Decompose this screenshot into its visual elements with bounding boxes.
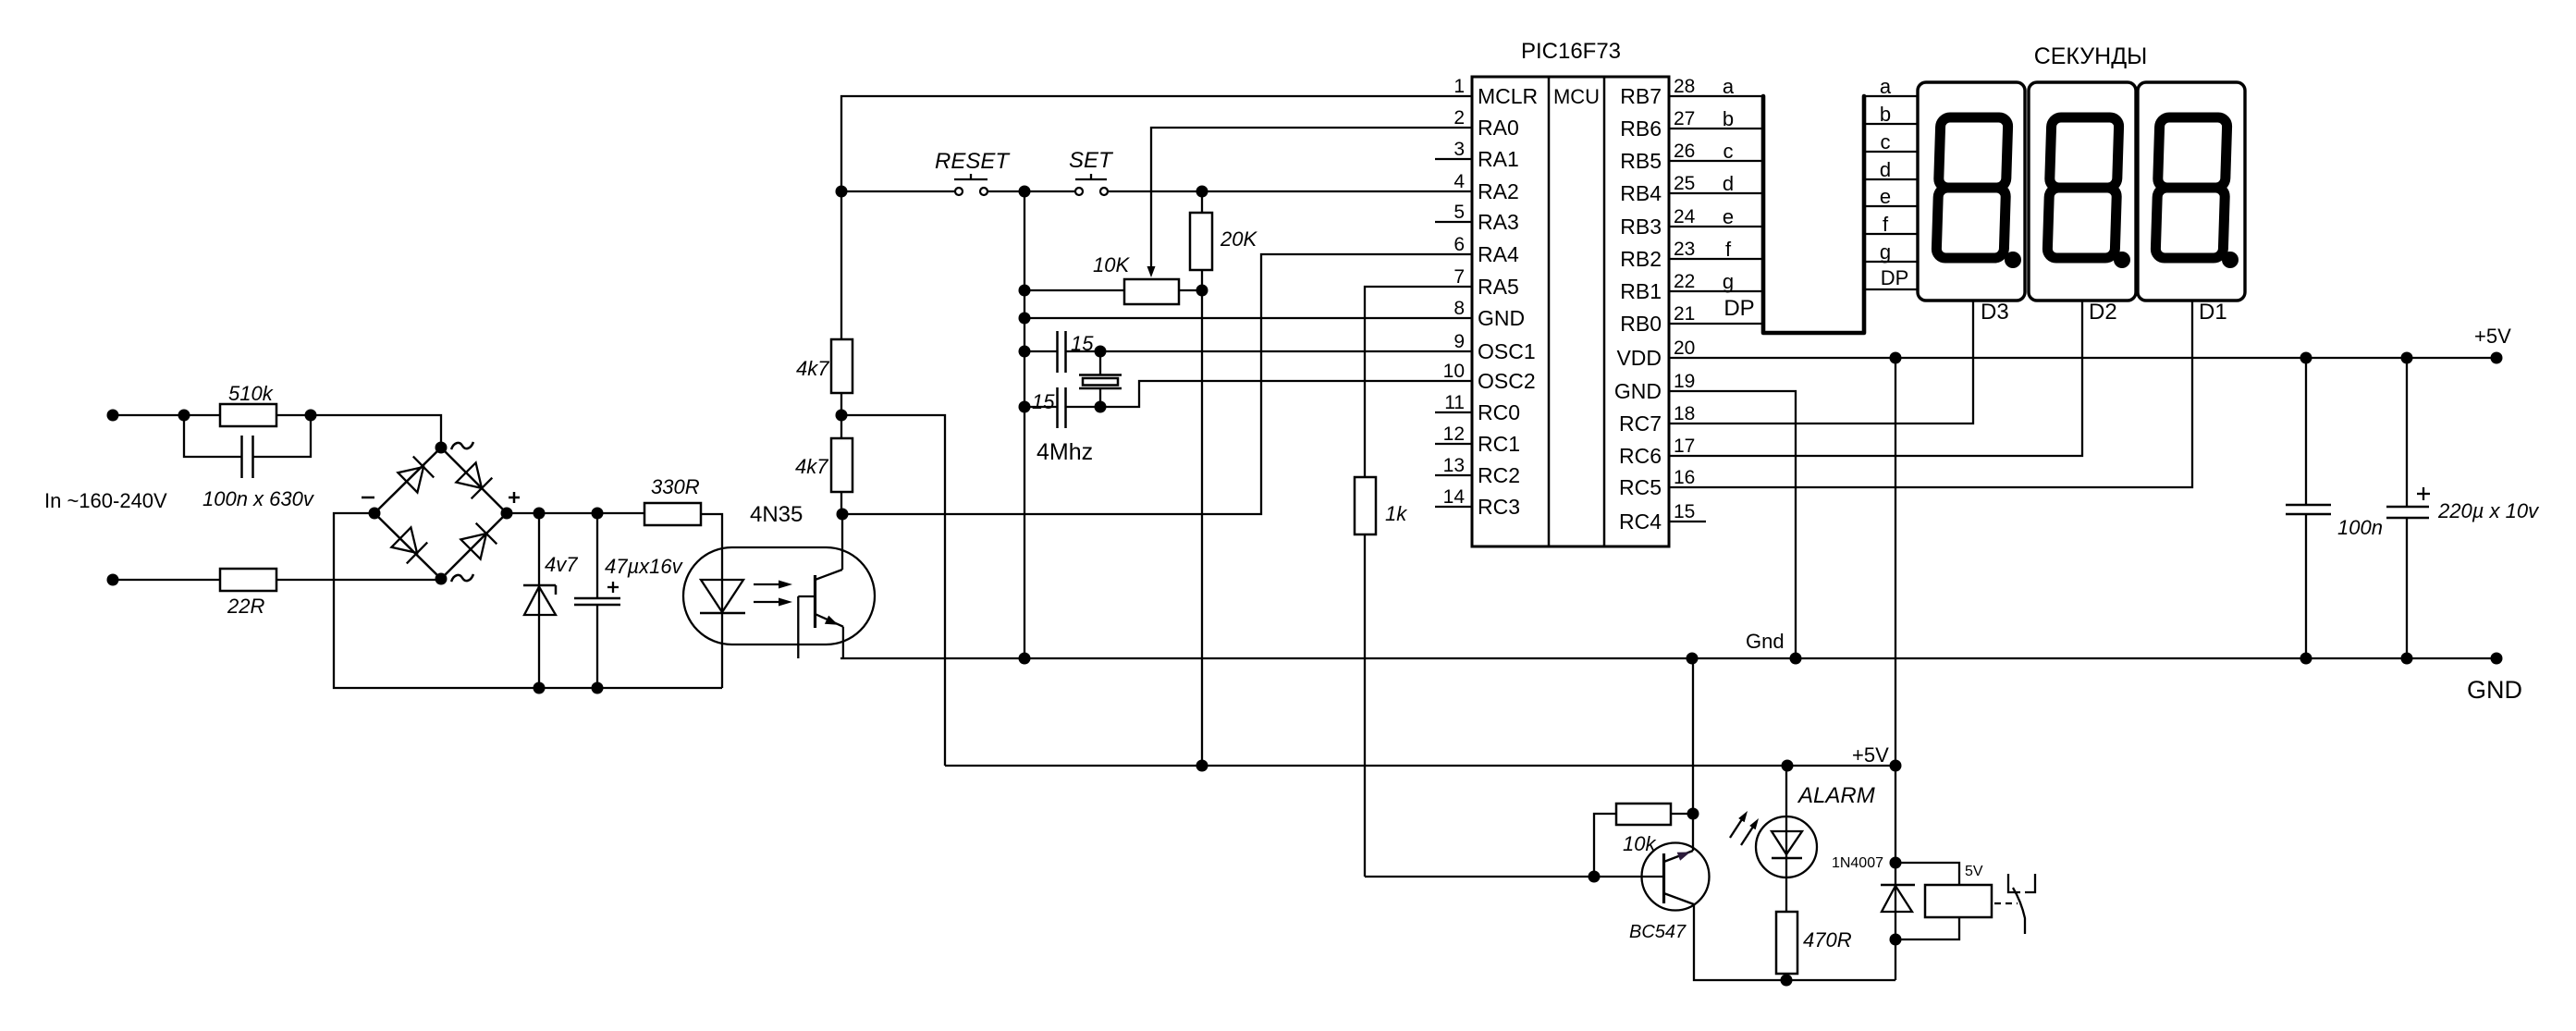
label: AC marks <box>451 442 473 449</box>
wires: bus to display segments <box>1864 96 1918 289</box>
svg-text:RB2: RB2 <box>1620 247 1662 271</box>
svg-text:+5V: +5V <box>2474 325 2511 348</box>
transistor Q BC547 <box>1642 843 1710 911</box>
pin numbers right <box>1674 76 1696 522</box>
svg-text:11: 11 <box>1444 392 1465 413</box>
LED ALARM <box>1756 766 1817 912</box>
diode bridge bottom-left <box>391 527 427 563</box>
wires: segment pins RB7-RB0 to bus <box>1669 96 1763 324</box>
svg-text:4: 4 <box>1454 171 1465 192</box>
node: AC input terminal bottom <box>107 574 119 586</box>
svg-text:DP: DP <box>1881 266 1909 289</box>
phototransistor of 4N35 <box>798 570 843 658</box>
wire: RA5 pin7 down <box>1365 287 1472 477</box>
wire: opto emitter down to gnd rail <box>842 627 844 658</box>
diode bridge bottom-right <box>460 523 497 559</box>
svg-text:g: g <box>1723 270 1734 293</box>
svg-text:4N35: 4N35 <box>750 502 803 527</box>
svg-text:+5V: +5V <box>1852 743 1889 767</box>
wire: VDD +5V rail <box>1669 357 2496 359</box>
bus: thick segment bus <box>1763 96 1864 333</box>
svg-text:17: 17 <box>1674 436 1695 457</box>
IC U1 PIC16F73 body <box>1472 77 1669 546</box>
node: bridge corners <box>435 442 448 454</box>
decimal points <box>2005 252 2021 268</box>
wire <box>840 393 842 438</box>
pushbutton RESET <box>954 174 987 195</box>
svg-text:RA0: RA0 <box>1478 116 1519 140</box>
wire: relay branch vertical <box>1895 766 1896 980</box>
wire: D2 common to RC6 pin17 <box>1669 301 2082 456</box>
resistor 10k <box>1594 804 1693 877</box>
digit eights <box>1936 117 2227 258</box>
svg-text:20: 20 <box>1674 338 1695 359</box>
diode bridge top-left <box>398 457 434 493</box>
svg-text:e: e <box>1723 205 1734 228</box>
junction <box>178 410 190 422</box>
LED inside 4N35 <box>700 580 745 613</box>
node <box>1019 285 1031 297</box>
svg-text:22: 22 <box>1674 271 1695 292</box>
svg-text:СЕКУНДЫ: СЕКУНДЫ <box>2034 43 2148 69</box>
svg-text:7: 7 <box>1454 266 1465 288</box>
wire: bottom input to 22R <box>113 579 220 581</box>
svg-text:BC547: BC547 <box>1629 922 1687 942</box>
wire: RA0 pin2 to wiper <box>1151 128 1472 266</box>
svg-text:330R: 330R <box>651 475 700 498</box>
svg-text:19: 19 <box>1674 371 1695 392</box>
node <box>1890 352 1902 364</box>
svg-text:12: 12 <box>1443 423 1465 445</box>
pushbutton SET <box>1075 174 1108 195</box>
svg-text:RB3: RB3 <box>1620 215 1662 239</box>
svg-text:18: 18 <box>1674 403 1695 424</box>
pin names left <box>1478 84 1538 519</box>
pin stub unconnected right: RC4 <box>1669 521 1706 522</box>
wire: 510k to bridge top <box>276 415 441 448</box>
svg-text:GND: GND <box>1478 306 1525 330</box>
svg-text:RB0: RB0 <box>1620 312 1662 336</box>
svg-text:f: f <box>1725 238 1732 261</box>
resistor 1k <box>1355 477 1376 534</box>
svg-text:100n x 630v: 100n x 630v <box>202 487 315 510</box>
SECTION: opto <box>683 502 875 658</box>
capacitor 15 upper <box>1024 331 1472 373</box>
svg-text:510k: 510k <box>228 382 274 405</box>
svg-text:RA2: RA2 <box>1478 179 1519 203</box>
svg-text:100n: 100n <box>2337 516 2383 539</box>
wire: bridge minus down to gnd rail <box>334 513 722 688</box>
label: minus <box>362 497 374 499</box>
svg-text:RB5: RB5 <box>1620 149 1662 173</box>
svg-text:DP: DP <box>1723 296 1754 321</box>
wire: RA2 row with buttons <box>841 190 955 192</box>
wire: bridge plus to 330R <box>507 512 644 514</box>
wire: 1k down to BC547 base <box>1364 534 1366 877</box>
SECTION: right rails <box>840 325 2540 766</box>
svg-text:RC4: RC4 <box>1619 509 1662 534</box>
diode bridge top-right <box>456 462 492 498</box>
svg-text:RC3: RC3 <box>1478 495 1520 519</box>
svg-text:20K: 20K <box>1220 227 1257 251</box>
svg-text:1: 1 <box>1454 76 1465 97</box>
svg-text:RA1: RA1 <box>1478 147 1519 171</box>
labels: segment letters left column <box>1723 75 1755 321</box>
pin numbers left <box>1443 76 1466 508</box>
SECTION: left power input <box>44 382 441 618</box>
relay K1 coil <box>1895 863 1992 939</box>
SECTION: bottom <box>1365 658 2035 987</box>
relay linkage dashed <box>1994 902 2018 904</box>
svg-text:a: a <box>1880 75 1892 98</box>
wire: GND pin19 down to gnd rail <box>1669 391 1796 658</box>
node <box>1687 808 1699 820</box>
resistor 20K <box>1190 191 1212 766</box>
svg-text:RB6: RB6 <box>1620 117 1662 141</box>
svg-text:OSC1: OSC1 <box>1478 339 1536 363</box>
wire: GND pin8 row <box>1024 317 1472 319</box>
wire: +5V bottom rail <box>945 765 1895 767</box>
wire: 22R to bridge bottom <box>276 579 441 581</box>
svg-text:OSC2: OSC2 <box>1478 369 1536 393</box>
capacitor 220µ x 10v <box>2386 358 2430 658</box>
svg-text:b: b <box>1880 103 1891 126</box>
svg-text:GND: GND <box>1614 379 1662 403</box>
svg-text:28: 28 <box>1674 76 1695 97</box>
svg-text:15: 15 <box>1032 390 1055 413</box>
svg-text:RA4: RA4 <box>1478 242 1519 266</box>
svg-text:5: 5 <box>1454 202 1465 223</box>
svg-text:RC0: RC0 <box>1478 400 1520 424</box>
svg-text:RC2: RC2 <box>1478 463 1520 487</box>
pin stubs unconnected left: RA1 RA3 RC0 RC1 RC2 RC3 <box>1435 159 1472 507</box>
svg-text:4k7: 4k7 <box>795 455 828 478</box>
svg-text:In ~160-240V: In ~160-240V <box>44 489 167 512</box>
svg-text:GND: GND <box>2467 676 2522 704</box>
svg-text:15: 15 <box>1071 332 1094 355</box>
svg-text:470R: 470R <box>1803 928 1852 951</box>
node <box>837 509 849 521</box>
resistor 4k7 upper <box>831 339 853 393</box>
svg-text:g: g <box>1880 240 1891 264</box>
svg-text:f: f <box>1883 213 1889 236</box>
svg-text:RB4: RB4 <box>1620 181 1662 205</box>
capacitor 47µx16v <box>574 513 620 688</box>
junction <box>305 410 317 422</box>
svg-text:10K: 10K <box>1093 253 1130 276</box>
svg-text:1k: 1k <box>1385 502 1407 525</box>
display digit D1 box <box>2138 82 2245 301</box>
wire: collector line from gnd rail <box>1692 658 1694 851</box>
svg-text:8: 8 <box>1454 298 1465 319</box>
svg-text:a: a <box>1723 75 1735 98</box>
svg-text:27: 27 <box>1674 108 1695 129</box>
label: plus <box>509 497 520 499</box>
node <box>1589 871 1601 883</box>
svg-text:24: 24 <box>1674 206 1696 227</box>
light arrows <box>754 581 792 607</box>
zener 4v7 <box>523 513 556 688</box>
svg-text:Gnd: Gnd <box>1746 630 1785 653</box>
svg-text:MCLR: MCLR <box>1478 84 1538 108</box>
capacitor 15 lower <box>1024 387 1100 428</box>
svg-text:13: 13 <box>1443 455 1465 476</box>
pin names right <box>1614 84 1662 534</box>
wire: OSC2 to crystal <box>1100 381 1472 407</box>
svg-text:4v7: 4v7 <box>545 553 578 576</box>
node <box>1019 653 1031 665</box>
resistor 330R <box>644 503 701 525</box>
svg-text:D2: D2 <box>2089 300 2117 325</box>
svg-text:MCU: MCU <box>1553 85 1600 108</box>
svg-text:4Mhz: 4Mhz <box>1037 439 1093 465</box>
display digit D3 box <box>1918 82 2025 301</box>
svg-text:RC7: RC7 <box>1619 411 1662 436</box>
svg-text:16: 16 <box>1674 467 1695 488</box>
svg-text:c: c <box>1723 140 1734 163</box>
node <box>1019 313 1031 325</box>
svg-text:D3: D3 <box>1981 300 2009 325</box>
svg-text:15: 15 <box>1674 501 1695 522</box>
svg-text:RC1: RC1 <box>1478 432 1520 456</box>
svg-text:RA5: RA5 <box>1478 275 1519 299</box>
node: AC input terminal top <box>107 410 119 422</box>
node <box>1019 401 1031 413</box>
svg-text:c: c <box>1881 130 1891 153</box>
resistor 22R <box>220 569 276 591</box>
svg-text:RC5: RC5 <box>1619 475 1662 499</box>
svg-text:23: 23 <box>1674 239 1695 260</box>
wire: RA4 pin6 to opto collector <box>842 254 1472 514</box>
wire: base wire to BC547 <box>1365 876 1663 878</box>
wire <box>840 491 842 514</box>
node <box>836 186 848 198</box>
svg-text:d: d <box>1723 172 1734 195</box>
svg-text:ALARM: ALARM <box>1797 783 1875 808</box>
node <box>1890 857 1902 869</box>
SECTION: bridge <box>334 442 722 694</box>
svg-text:b: b <box>1723 107 1734 130</box>
wire: gnd vertical x1108 <box>1024 191 1025 658</box>
node <box>1781 975 1793 987</box>
SECTION: middle <box>795 96 1895 877</box>
capacitor 100n x 630v <box>184 415 241 457</box>
svg-text:220µ x 10v: 220µ x 10v <box>2437 499 2540 522</box>
switch contacts <box>2008 874 2035 934</box>
svg-text:e: e <box>1880 185 1891 208</box>
capacitor 100n right <box>2286 358 2331 658</box>
svg-text:1N4007: 1N4007 <box>1832 855 1883 871</box>
diode 1N4007 <box>1881 885 1915 912</box>
potentiometer 10K <box>1024 279 1202 304</box>
svg-text:3: 3 <box>1454 139 1465 160</box>
svg-text:D1: D1 <box>2199 300 2227 325</box>
resistor 510k <box>220 404 276 426</box>
svg-text:9: 9 <box>1454 331 1465 352</box>
wire: D1 common to RC5 pin16 <box>1669 301 2192 487</box>
wire: 330R to opto LED <box>701 514 722 688</box>
optocoupler U 4N35 body <box>683 547 875 644</box>
SECTION: mcu <box>1435 39 1706 546</box>
node: +5V junction of 4k7s <box>836 410 848 422</box>
resistor 470R <box>1776 912 1797 974</box>
display digit D2 box <box>2029 82 2136 301</box>
SECTION: display <box>1669 43 2245 487</box>
svg-text:14: 14 <box>1443 486 1466 508</box>
node <box>534 508 546 520</box>
wire: MCLR line pin1 <box>841 96 1472 339</box>
svg-text:RESET: RESET <box>935 149 1011 174</box>
wire: opto collector up to 4k7 junction <box>841 514 843 570</box>
wire: main gnd rail <box>840 657 2496 659</box>
svg-text:RB1: RB1 <box>1620 279 1662 303</box>
node <box>1019 346 1031 358</box>
node: +5V taps <box>1782 760 1794 772</box>
svg-text:SET: SET <box>1069 148 1114 173</box>
node <box>1196 760 1208 772</box>
svg-text:RA3: RA3 <box>1478 210 1519 234</box>
svg-text:2: 2 <box>1454 107 1465 129</box>
svg-text:25: 25 <box>1674 173 1695 194</box>
svg-text:47µx16v: 47µx16v <box>605 555 684 578</box>
svg-text:RC6: RC6 <box>1619 444 1662 468</box>
svg-text:6: 6 <box>1454 234 1465 255</box>
svg-text:RB7: RB7 <box>1620 84 1662 108</box>
svg-text:4k7: 4k7 <box>796 357 829 380</box>
crystal 4Mhz <box>1079 351 1122 407</box>
wire: D3 common to RC7 pin18 <box>1669 301 1973 423</box>
svg-text:d: d <box>1880 158 1891 181</box>
wire: top input to 510k <box>113 414 220 416</box>
svg-text:10: 10 <box>1443 361 1465 382</box>
svg-text:21: 21 <box>1674 303 1695 325</box>
wire: emitter down and bottom rail <box>1694 904 1895 980</box>
svg-text:22R: 22R <box>227 595 264 618</box>
bridge rectifier diamond <box>374 448 507 579</box>
wire: 4k7 junction to +5V rail <box>841 415 945 766</box>
wiper arrow <box>1147 266 1156 277</box>
LED arrows <box>1730 811 1759 845</box>
svg-text:VDD: VDD <box>1616 346 1662 370</box>
svg-text:5V: 5V <box>1965 864 1983 879</box>
wire: +5V feed down to relay section <box>1895 358 1896 766</box>
labels: segment letters right column <box>1880 75 1908 289</box>
svg-text:26: 26 <box>1674 141 1695 162</box>
svg-text:PIC16F73: PIC16F73 <box>1521 39 1621 64</box>
resistor 4k7 lower <box>831 438 853 492</box>
